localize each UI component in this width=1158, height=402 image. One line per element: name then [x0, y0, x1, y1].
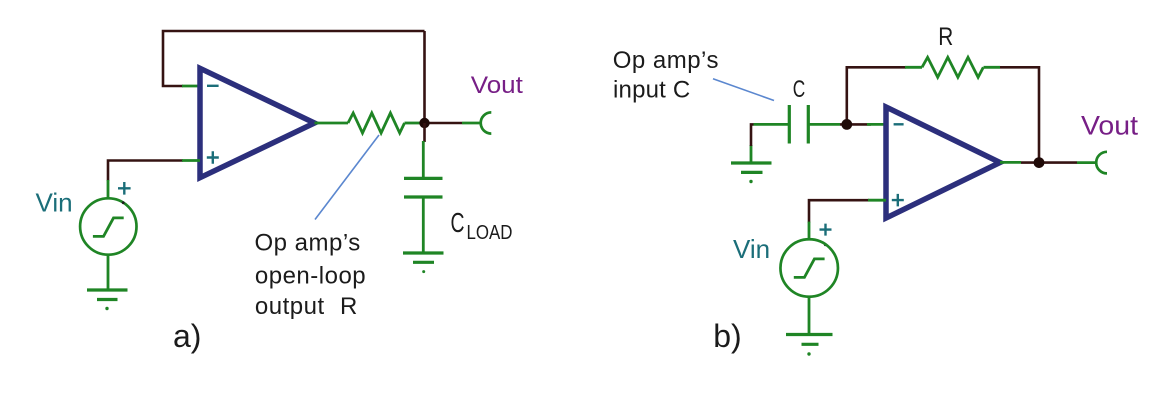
pin stub capacitor right b [808, 123, 840, 126]
node B2 (junction dot) [1034, 157, 1045, 168]
svg-text:Op amp’s: Op amp’s [613, 47, 719, 74]
pin stub source top b [808, 222, 811, 240]
svg-text:LOAD: LOAD [467, 222, 513, 244]
svg-text:a): a) [173, 318, 201, 354]
svg-text:Vout: Vout [1081, 110, 1139, 140]
wire pin inverting input a (green pin stub) [182, 85, 200, 88]
annotation line b (blue pointer) [713, 79, 774, 101]
pin stub source top a [107, 180, 110, 199]
pin stub capacitor left b [754, 123, 790, 126]
wire noninverting input b [809, 200, 869, 222]
pin stub output b [1000, 161, 1021, 164]
pin stub noninverting input b [868, 199, 886, 202]
svg-text:C: C [793, 76, 806, 103]
pin stub terminal b [1077, 161, 1097, 164]
output terminal arc a [481, 112, 492, 133]
svg-text:b): b) [713, 318, 741, 354]
wire source to ground b [808, 296, 811, 334]
node A (junction dot) [419, 118, 429, 128]
pin stub resistor left b [905, 66, 922, 69]
output terminal arc b [1096, 152, 1107, 174]
wire node up and across to resistor b [847, 67, 906, 124]
resistor R [922, 57, 983, 77]
svg-text:Op amp’s: Op amp’s [255, 229, 361, 256]
wire node to inverting input b [840, 123, 871, 126]
svg-text:Vin: Vin [733, 234, 770, 264]
step symbol V2 [794, 259, 825, 278]
wire feedback loop a (output node to inverting input) [163, 31, 425, 86]
op-amp U1 [200, 68, 315, 177]
wire node to output terminal a [425, 122, 463, 125]
voltage source V1 circle [80, 198, 136, 254]
artifact dot source b [824, 243, 827, 246]
svg-text:open-loop: open-loop [255, 263, 366, 290]
svg-text:R: R [938, 23, 953, 51]
pin stub capacitor bottom a [422, 197, 425, 253]
svg-text:R: R [340, 293, 357, 320]
step symbol V1 [93, 218, 124, 237]
pin stub ground b [750, 145, 753, 163]
plus mark source b [820, 224, 832, 236]
pin stub terminal a [462, 122, 482, 125]
ground capacitor a [403, 253, 444, 262]
wire node up to feedback a [423, 31, 426, 123]
wire source to ground a [107, 255, 110, 290]
pin stub resistor right b [984, 66, 1001, 69]
plus mark source a [118, 182, 131, 195]
pin stub resistor right a [405, 122, 421, 125]
pin stub output a [315, 122, 349, 125]
svg-text:C: C [451, 207, 465, 238]
voltage source V2 circle [780, 239, 838, 297]
plus mark U2 [892, 194, 904, 207]
op-amp U2 [886, 107, 1000, 218]
plus mark U1 [207, 151, 219, 164]
wire resistor to output node b [1000, 67, 1039, 162]
ground source a [87, 290, 128, 300]
pin stub capacitor top a [422, 141, 425, 178]
resistor (op amp open-loop output R) [348, 113, 404, 133]
minus mark U2 [894, 123, 904, 125]
svg-text:Vin: Vin [36, 187, 73, 217]
svg-text:output: output [255, 293, 325, 320]
pin stub inverting input b [867, 123, 886, 126]
annotation line a (blue pointer) [315, 135, 379, 220]
wire output node to terminal b [1021, 161, 1077, 164]
pin stub noninverting input a [182, 159, 200, 162]
svg-text:Vout: Vout [471, 72, 523, 99]
ground capacitor b [731, 163, 772, 172]
wire noninverting input a [108, 161, 183, 182]
ground source b [786, 335, 833, 345]
capacitor C [789, 105, 808, 144]
artifact dot source a [122, 201, 125, 204]
svg-text:input C: input C [613, 76, 690, 103]
minus mark U1 [207, 85, 219, 87]
capacitor CLOAD [404, 178, 443, 197]
wire capacitor left to ground b [751, 124, 754, 146]
node B1 (junction dot) [841, 119, 852, 130]
wire node down to capacitor a [423, 123, 426, 142]
